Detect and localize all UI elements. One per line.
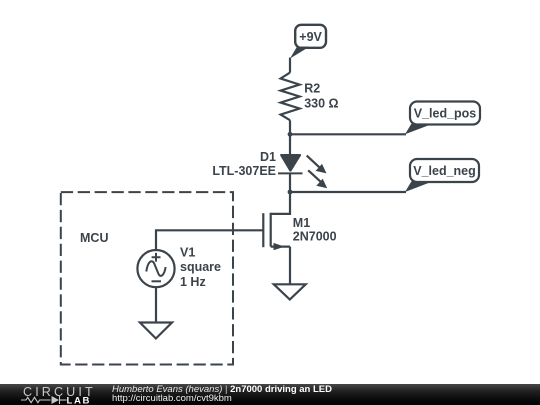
LED light arrow 1 (307, 156, 327, 174)
voltage source V1 (137, 250, 174, 287)
net flag +9V (290, 25, 326, 59)
LED D1 (278, 155, 303, 173)
wire +9V to R2 (289, 58, 291, 73)
net flag V_led_pos (405, 102, 480, 135)
resistor R2 (281, 73, 300, 121)
footer title text (112, 384, 332, 395)
wire V1 to M1 gate (156, 230, 263, 249)
net flag V_led_neg (405, 159, 479, 192)
svg-text:square: square (180, 260, 221, 274)
svg-text:MCU: MCU (80, 231, 108, 245)
svg-text:V1: V1 (180, 245, 195, 259)
footer url text (112, 393, 232, 404)
svg-text:LTL-307EE: LTL-307EE (212, 164, 276, 178)
svg-text:1 Hz: 1 Hz (180, 275, 206, 289)
footer bar (0, 384, 540, 405)
LED light arrow 2 (308, 170, 327, 188)
wire node to D1 anode (289, 134, 291, 154)
svg-text:V_led_neg: V_led_neg (413, 164, 476, 178)
svg-text:R2: R2 (304, 82, 320, 96)
svg-text:M1: M1 (293, 216, 310, 230)
svg-text:330 Ω: 330 Ω (304, 97, 338, 111)
CircuitLab logo (0, 383, 100, 405)
wire V1 to ground (155, 287, 157, 322)
svg-text:+9V: +9V (299, 30, 322, 44)
junction node V_led_pos (288, 132, 293, 137)
wire D1 cathode to node (289, 173, 291, 192)
junction node V_led_neg (288, 190, 293, 195)
wire M1 source to ground (289, 247, 291, 285)
svg-text:LAB: LAB (67, 396, 92, 405)
svg-text:V_led_pos: V_led_pos (414, 106, 477, 120)
wire node to V_led_neg flag (290, 191, 406, 193)
transistor M1 (263, 213, 290, 251)
wire node to M1 drain (271, 192, 290, 214)
wire R2 to node (289, 120, 291, 134)
ground under M1 (274, 284, 306, 299)
svg-text:D1: D1 (260, 150, 276, 164)
MCU box (61, 192, 233, 364)
wire node to V_led_pos flag (290, 133, 406, 135)
svg-text:2N7000: 2N7000 (293, 230, 337, 244)
ground under V1 (140, 323, 172, 339)
